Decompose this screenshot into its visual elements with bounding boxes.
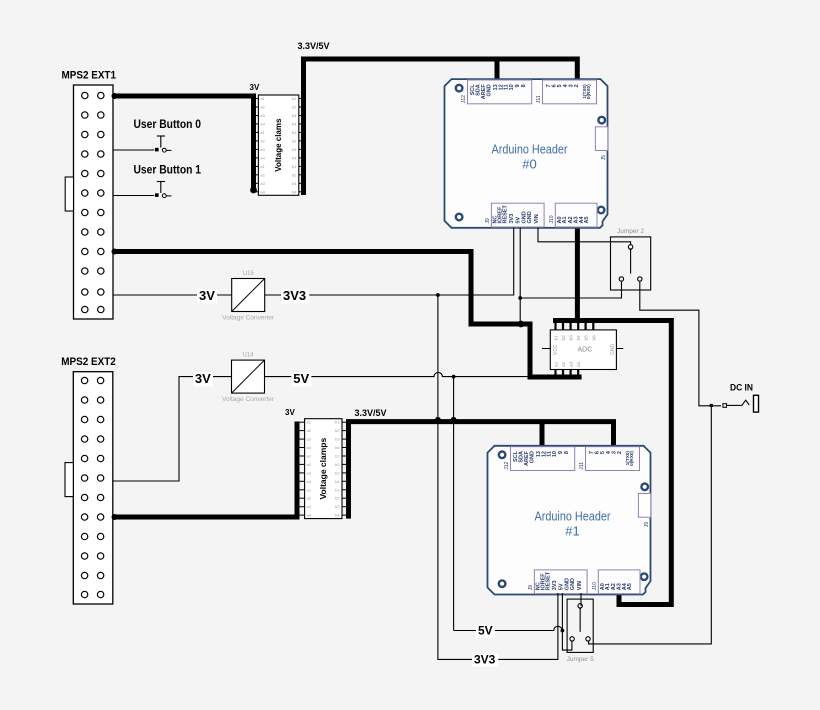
svg-text:J9: J9 <box>528 585 534 591</box>
svg-text:b4: b4 <box>335 445 340 450</box>
svg-text:b2: b2 <box>335 496 340 501</box>
svg-text:a3: a3 <box>307 504 312 509</box>
svg-text:a1: a1 <box>260 164 265 169</box>
svg-text:J9: J9 <box>485 218 491 224</box>
svg-text:J10: J10 <box>592 582 598 590</box>
wire 3V from MPS2 EXT2 to converter U14 (thin) <box>113 377 232 481</box>
svg-text:DC IN: DC IN <box>730 383 753 393</box>
svg-text:U14: U14 <box>242 353 254 359</box>
header J11 of Arduino Header #1 <box>586 447 640 471</box>
svg-text:b2: b2 <box>561 335 567 341</box>
connector MPS2 EXT1 <box>62 70 117 320</box>
DC IN connector P1 <box>710 383 759 413</box>
svg-text:User Button 0: User Button 0 <box>134 119 202 131</box>
voltage converter U15 <box>222 271 275 322</box>
svg-text:a2: a2 <box>260 138 265 143</box>
header J12 of Arduino Header #0 <box>468 80 532 104</box>
header J10 of Arduino Header #1 <box>598 570 640 594</box>
svg-text:5V: 5V <box>478 624 493 638</box>
mounting holes Arduino Header #0 <box>456 85 463 92</box>
svg-text:J12: J12 <box>504 462 510 470</box>
svg-text:a3: a3 <box>260 147 265 152</box>
voltage clamp block U1 Voltage clams <box>252 95 304 195</box>
svg-text:Voltage Converter: Voltage Converter <box>222 315 275 322</box>
svg-text:b4: b4 <box>335 513 340 518</box>
svg-text:b1: b1 <box>292 96 297 101</box>
svg-text:3V3: 3V3 <box>552 580 558 590</box>
mounting holes Arduino Header #1 <box>499 452 506 459</box>
svg-text:a2: a2 <box>307 462 312 467</box>
svg-text:b1: b1 <box>335 454 340 459</box>
svg-text:Arduino Header: Arduino Header <box>492 142 569 157</box>
svg-text:J12: J12 <box>461 95 467 103</box>
svg-text:a1: a1 <box>260 96 265 101</box>
svg-text:J5: J5 <box>644 522 650 528</box>
svg-text:Arduino Header: Arduino Header <box>535 508 612 523</box>
svg-text:3.3V/5V: 3.3V/5V <box>355 408 388 419</box>
label 3V at U14 input <box>193 372 213 386</box>
wire power bus MPS2 EXT1 row9 to ADC bottom (thick) <box>112 249 582 378</box>
wire 5V net to Arduino 1 and jumper 5 with hop (thin) <box>454 377 572 650</box>
header J5 of Arduino Header #0 <box>595 127 607 151</box>
svg-text:b4: b4 <box>292 189 297 194</box>
svg-text:a2: a2 <box>307 428 312 433</box>
svg-text:GND: GND <box>530 451 536 463</box>
svg-text:Jumper 5: Jumper 5 <box>567 656 594 663</box>
arduino header board Arduino Header #1 <box>488 446 651 595</box>
jumper Jumper 2 <box>611 228 651 290</box>
svg-text:Voltage Converter: Voltage Converter <box>222 396 275 403</box>
svg-text:a2: a2 <box>561 361 567 367</box>
svg-text:MPS2 EXT1: MPS2 EXT1 <box>62 70 117 82</box>
svg-text:b2: b2 <box>292 105 297 110</box>
svg-text:b3: b3 <box>335 470 340 475</box>
svg-text:b3: b3 <box>335 437 340 442</box>
svg-text:a1: a1 <box>307 487 312 492</box>
wire VIN Arduino 1 to jumper 5 (thin) <box>580 593 582 606</box>
wire 3.3V/5V rail to Arduino Header 1 (thick) <box>349 417 614 519</box>
user button SW0 with label User Button 0 <box>113 119 201 152</box>
ADC U3 <box>542 322 623 377</box>
header J11 of Arduino Header #0 <box>543 80 597 104</box>
svg-text:RESET: RESET <box>502 205 508 224</box>
svg-text:GND: GND <box>487 84 493 96</box>
svg-text:b6: b6 <box>591 335 597 341</box>
header J5 of Arduino Header #1 <box>638 494 650 518</box>
svg-text:GND: GND <box>527 211 533 223</box>
svg-text:0(RX0): 0(RX0) <box>629 451 634 466</box>
svg-text:9: 9 <box>515 84 521 87</box>
svg-text:a3: a3 <box>569 361 575 367</box>
svg-text:VIN: VIN <box>577 581 583 590</box>
svg-text:3V: 3V <box>199 288 215 303</box>
svg-text:b4: b4 <box>335 479 340 484</box>
label 3V3 at U15 output <box>281 289 309 303</box>
svg-text:b3: b3 <box>569 335 575 341</box>
label 5V at U14 output <box>291 372 311 386</box>
svg-text:a4: a4 <box>307 445 312 450</box>
svg-text:b1: b1 <box>554 335 560 341</box>
svg-text:a4: a4 <box>260 121 265 126</box>
svg-text:a4: a4 <box>260 189 265 194</box>
svg-text:2: 2 <box>574 84 580 87</box>
svg-text:5V: 5V <box>515 216 521 223</box>
svg-text:a1: a1 <box>307 420 312 425</box>
wire DC IN to jumper 5 (thin) <box>589 406 712 644</box>
svg-text:3V3: 3V3 <box>283 288 306 303</box>
wire 3V3 net: MPS2 EXT1 to converter U15 to Arduino 0 (thin) <box>113 228 514 296</box>
svg-text:a4: a4 <box>260 155 265 160</box>
svg-text:b4: b4 <box>576 335 582 341</box>
svg-text:b1: b1 <box>335 420 340 425</box>
wire 3.3V/5V rail to Arduino Header 0 (thick) <box>304 59 578 195</box>
svg-text:J11: J11 <box>579 462 585 470</box>
header J12 of Arduino Header #1 <box>511 447 575 471</box>
svg-text:3V3: 3V3 <box>474 653 496 667</box>
svg-text:0(RX0): 0(RX0) <box>586 84 591 99</box>
svg-text:b2: b2 <box>292 172 297 177</box>
svg-text:b2: b2 <box>292 138 297 143</box>
svg-text:#1: #1 <box>565 523 579 538</box>
svg-text:a1: a1 <box>307 454 312 459</box>
svg-text:User Button 1: User Button 1 <box>134 165 202 177</box>
svg-text:8: 8 <box>521 84 527 87</box>
wire 3V feed from MPS2 EXT1 to voltage clamp U1 (thick) <box>112 93 257 193</box>
svg-text:VIN: VIN <box>534 214 540 223</box>
svg-text:GND: GND <box>570 578 576 590</box>
svg-text:a2: a2 <box>307 496 312 501</box>
wire VIN from Arduino 0 to jumper 2 (thin) <box>538 228 631 246</box>
svg-text:b4: b4 <box>292 121 297 126</box>
svg-text:5V: 5V <box>293 371 309 386</box>
label 3V at U15 input <box>197 289 217 303</box>
svg-text:2: 2 <box>617 451 623 454</box>
svg-text:a3: a3 <box>307 470 312 475</box>
header J9 of Arduino Header #1 <box>534 570 587 594</box>
svg-text:b3: b3 <box>292 181 297 186</box>
svg-text:a4: a4 <box>307 479 312 484</box>
label 5V (bottom) <box>476 625 495 638</box>
svg-text:3V: 3V <box>285 408 295 417</box>
svg-text:b1: b1 <box>292 164 297 169</box>
wire 5V from Arduino 0 to jumper 2 and bus (thin) <box>518 228 621 323</box>
svg-text:a3: a3 <box>260 113 265 118</box>
jumper Jumper 5 <box>567 599 594 663</box>
svg-text:b3: b3 <box>335 504 340 509</box>
svg-text:b1: b1 <box>292 130 297 135</box>
svg-text:Jumper 2: Jumper 2 <box>617 228 644 235</box>
wire 5V from U14 to power bus with hop over 3V3 (thin) <box>265 372 531 378</box>
voltage converter U14 <box>222 353 275 404</box>
header J9 of Arduino Header #0 <box>491 203 544 227</box>
svg-text:3.3V/5V: 3.3V/5V <box>298 41 331 52</box>
svg-text:3V: 3V <box>195 371 211 386</box>
wire feed from MPS2 EXT2 to voltage clamp U2 (thick) <box>112 422 298 521</box>
svg-text:b2: b2 <box>335 462 340 467</box>
svg-text:ADC: ADC <box>578 347 593 354</box>
arduino header board Arduino Header #0 <box>445 79 608 228</box>
svg-text:a1: a1 <box>260 130 265 135</box>
svg-text:8: 8 <box>564 451 570 454</box>
svg-text:J5: J5 <box>601 155 607 161</box>
wire ADC top bus / A3 net (thick) <box>553 228 671 605</box>
svg-text:b5: b5 <box>584 335 590 341</box>
svg-text:a2: a2 <box>260 105 265 110</box>
svg-text:a3: a3 <box>260 181 265 186</box>
svg-text:Voltage clams: Voltage clams <box>274 118 283 172</box>
svg-text:3V: 3V <box>250 83 260 92</box>
svg-text:a4: a4 <box>307 513 312 518</box>
user button SW1 with label User Button 1 <box>113 165 202 198</box>
svg-text:VCC: VCC <box>553 344 559 355</box>
svg-text:a1: a1 <box>554 361 560 367</box>
connector MPS2 EXT2 <box>61 356 116 604</box>
svg-text:Voltage clamps: Voltage clamps <box>318 438 328 500</box>
svg-text:a3: a3 <box>307 437 312 442</box>
svg-text:MPS2 EXT2: MPS2 EXT2 <box>61 356 116 368</box>
svg-text:RESET: RESET <box>545 571 551 590</box>
svg-text:#0: #0 <box>522 157 536 172</box>
header J10 of Arduino Header #0 <box>555 203 597 227</box>
svg-text:5V: 5V <box>558 583 564 590</box>
svg-text:b4: b4 <box>292 155 297 160</box>
svg-text:a2: a2 <box>260 172 265 177</box>
label 3V3 (bottom) <box>472 654 498 667</box>
svg-text:3V3: 3V3 <box>509 214 515 224</box>
svg-text:b1: b1 <box>335 487 340 492</box>
voltage clamp block U2 Voltage clamps <box>299 419 348 519</box>
wire 3V3 net to Arduino 1 (thin) <box>436 293 558 659</box>
svg-text:b3: b3 <box>292 113 297 118</box>
svg-text:b2: b2 <box>335 428 340 433</box>
wire jumper 2 to DC IN (thin) <box>640 282 721 406</box>
svg-text:A5: A5 <box>584 216 590 223</box>
svg-text:J10: J10 <box>549 215 555 223</box>
svg-text:J11: J11 <box>536 95 542 103</box>
svg-text:9: 9 <box>558 451 564 454</box>
svg-text:a4: a4 <box>576 361 582 367</box>
svg-text:GND: GND <box>610 344 616 356</box>
svg-text:U15: U15 <box>243 271 255 277</box>
svg-text:b3: b3 <box>292 147 297 152</box>
svg-text:A5: A5 <box>627 583 633 590</box>
